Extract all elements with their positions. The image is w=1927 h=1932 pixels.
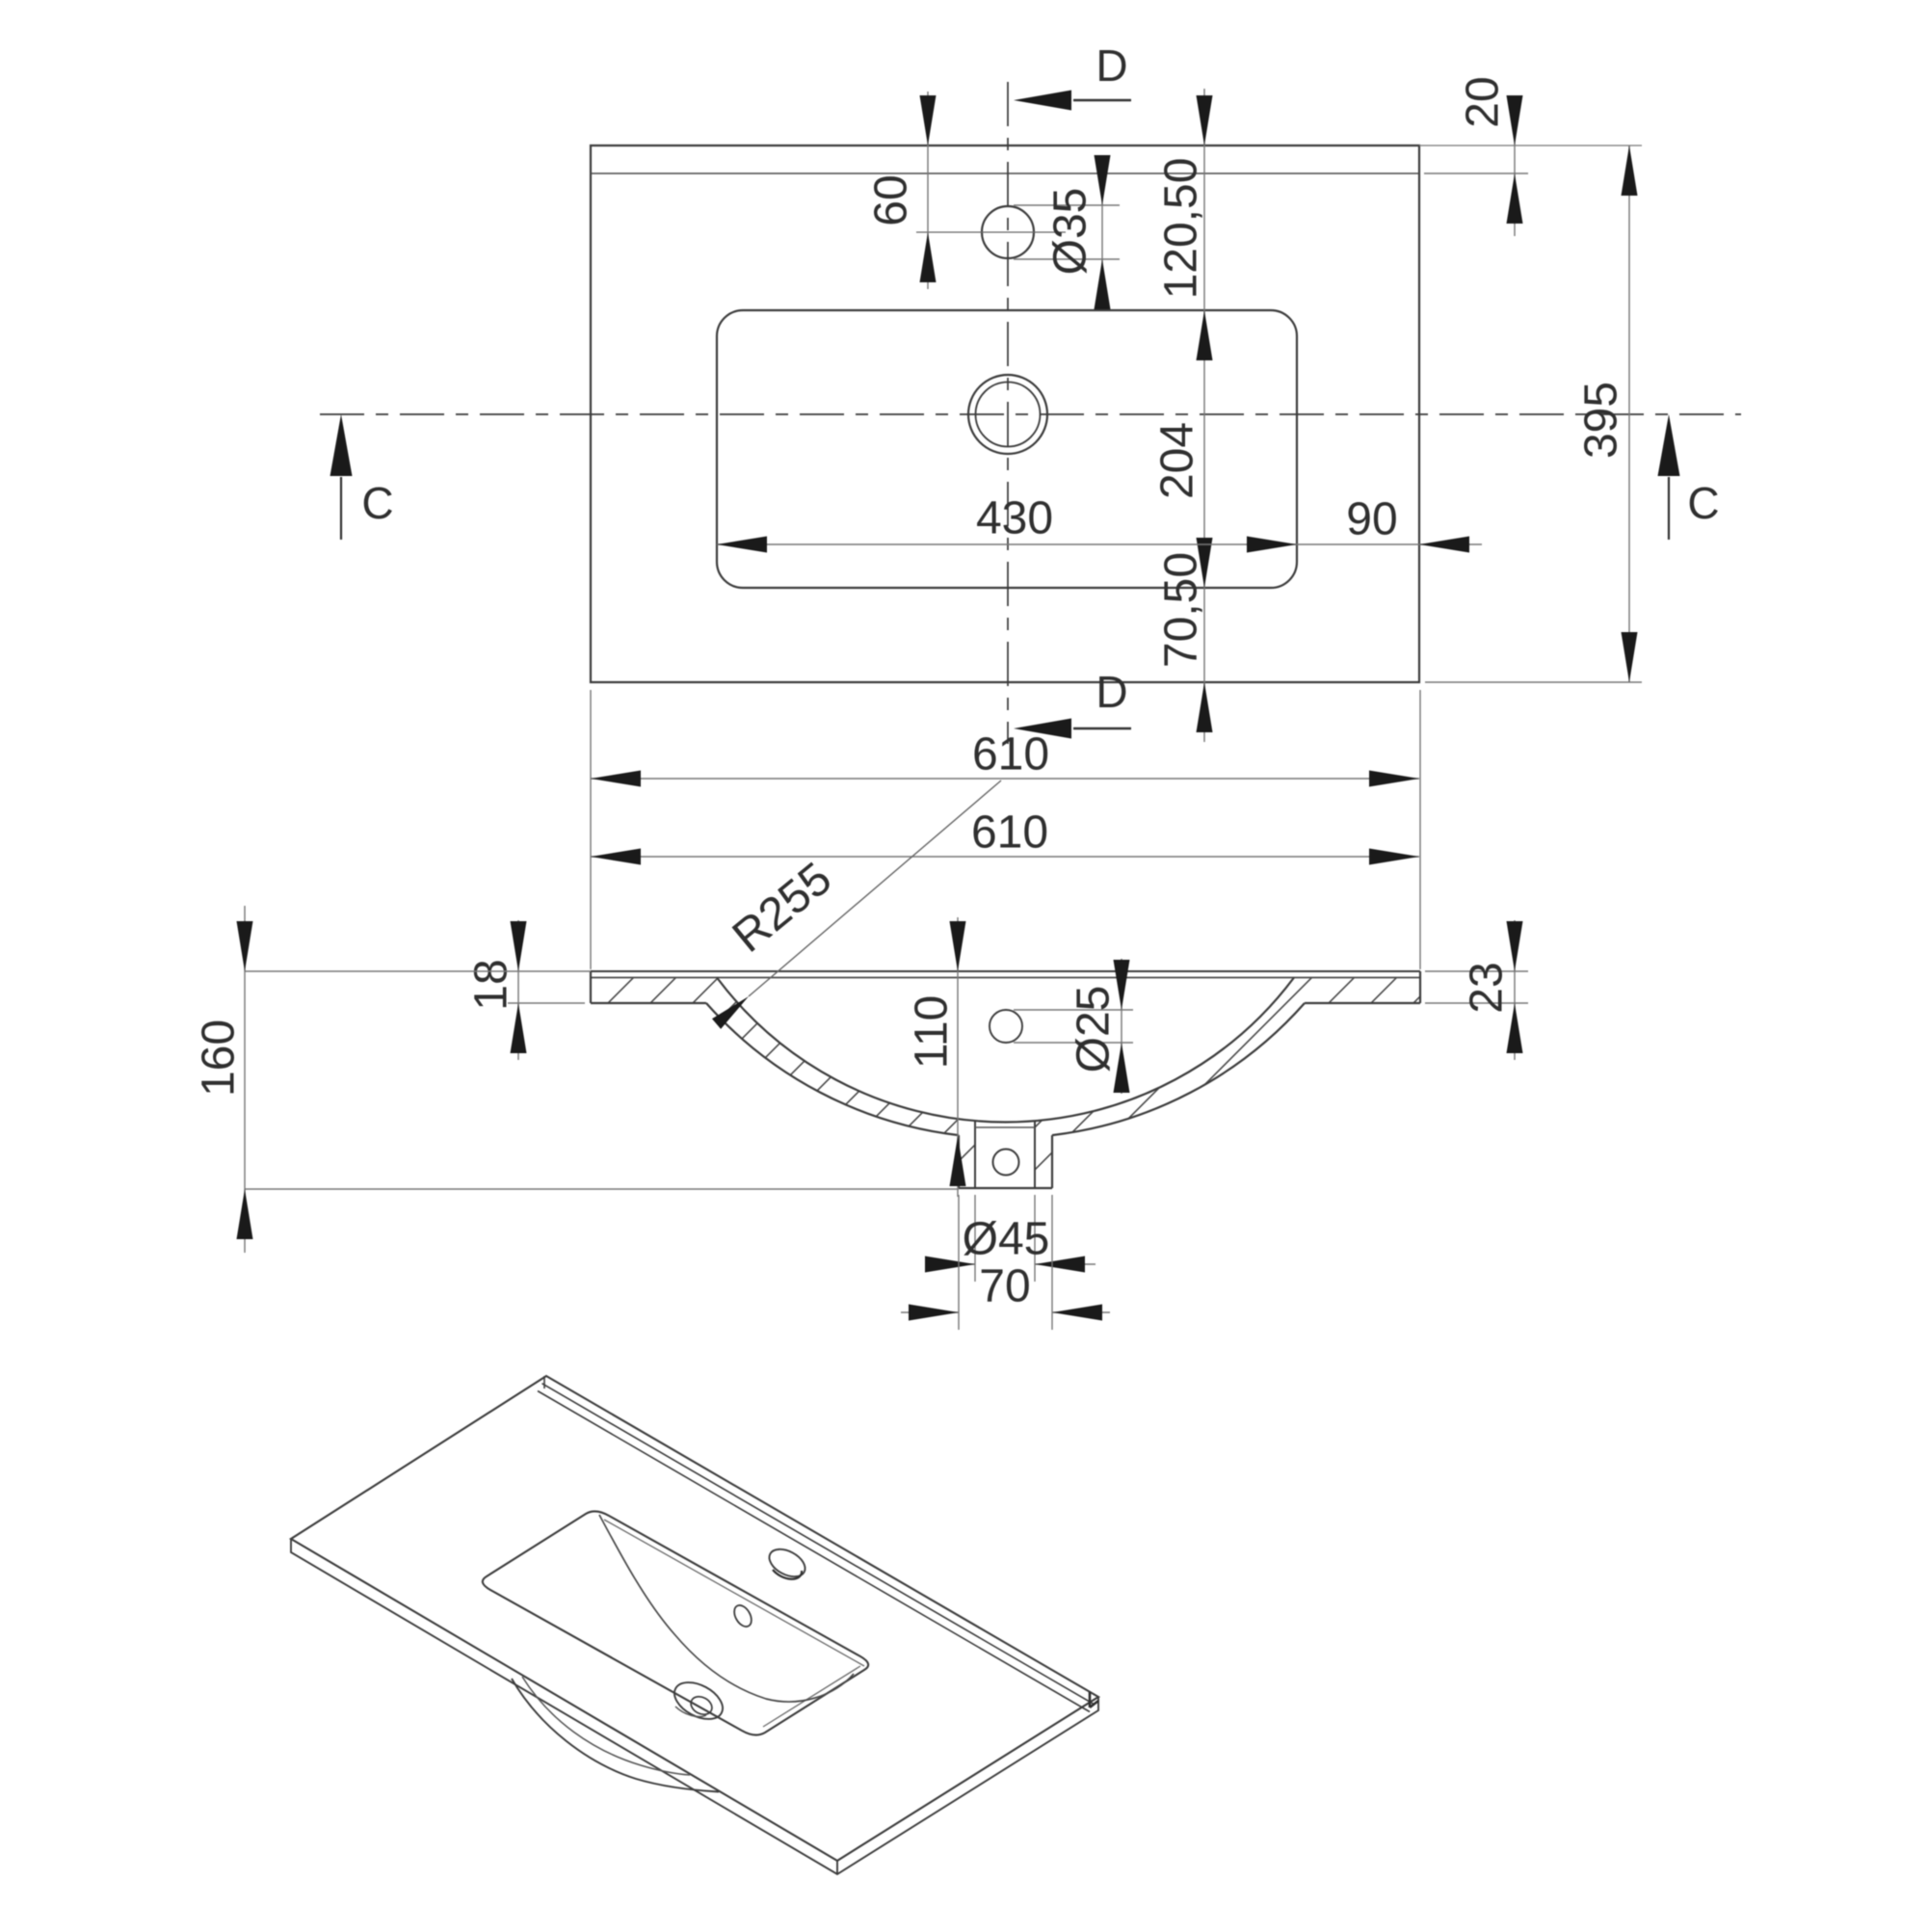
top view: faucet hole Ø35 <box>982 206 1034 258</box>
section basin outer curve left <box>706 1003 959 1135</box>
dim 610 line (plan) <box>591 778 1419 780</box>
610 arrow right <box>1369 771 1419 787</box>
395 arrow top <box>1622 146 1638 196</box>
iso: corner chamfer E <box>1090 1692 1098 1707</box>
dim 18 line <box>517 920 519 1060</box>
svg-text:110: 110 <box>907 995 958 1070</box>
160 arrow bottom <box>237 1189 253 1239</box>
610#2 arrow left <box>591 849 641 865</box>
svg-text:120,50: 120,50 <box>1156 158 1207 300</box>
23 arrow bottom <box>1507 1003 1523 1053</box>
drain box right <box>1051 1135 1053 1188</box>
section: hatched cut material left <box>591 978 975 1189</box>
Ø35 tangent bottom <box>1014 258 1120 260</box>
C arrow left <box>330 414 353 476</box>
dim 60 line <box>927 92 929 289</box>
top view: basin cutout <box>717 310 1297 588</box>
faucet hole horizontal crosshair <box>916 231 1066 233</box>
vertical centerline D-D <box>1007 82 1009 744</box>
C arrow right <box>1658 414 1680 476</box>
dim 110 line <box>957 917 959 1197</box>
610 arrow left <box>591 771 641 787</box>
svg-text:70,50: 70,50 <box>1156 552 1207 668</box>
section right edge <box>1419 971 1421 1003</box>
Ø45 arrow left <box>925 1257 975 1273</box>
iso: faucet hole oval <box>765 1544 810 1582</box>
430 arrow right <box>1247 537 1297 553</box>
svg-text:Ø35: Ø35 <box>1045 188 1096 276</box>
110 arrow top <box>950 921 966 971</box>
top view: drain outer circle <box>968 375 1047 454</box>
Ø25 tangent top <box>1014 1009 1133 1011</box>
D arrow tail bottom <box>1073 728 1131 729</box>
20 arrow bottom <box>1507 173 1523 224</box>
D arrow bottom <box>1014 719 1071 739</box>
svg-text:395: 395 <box>1576 382 1627 459</box>
Ø35 arrow top <box>1095 155 1111 205</box>
drain hole left wall <box>974 1121 976 1188</box>
section bottom left <box>591 1002 706 1004</box>
iso: back strip line 2 <box>538 1391 1090 1712</box>
svg-text:90: 90 <box>1346 494 1397 545</box>
iso: basin rim inner line SE <box>763 1666 860 1727</box>
dim 20 line <box>1514 99 1516 236</box>
Ø25 tangent bottom <box>1014 1042 1133 1044</box>
top view: back strip line (20mm) <box>591 172 1419 174</box>
chain dim line <box>1203 89 1205 742</box>
Ø45 tail left <box>938 1263 975 1265</box>
D arrow top <box>1014 91 1071 111</box>
section top second line <box>591 977 1420 979</box>
chain arrow at top edge <box>1197 95 1213 146</box>
ext 23 top <box>1425 970 1528 972</box>
Ø35 dim line <box>1101 159 1103 308</box>
70 tail left <box>901 1311 959 1313</box>
Ø45 tail right <box>1035 1263 1095 1265</box>
top view: washbasin plate outline <box>591 146 1419 682</box>
iso: back strip line 1 <box>542 1384 1095 1705</box>
70 ext left <box>958 1195 960 1330</box>
18 arrow bottom <box>511 1003 527 1053</box>
drain hole right wall <box>1034 1121 1036 1188</box>
ext surface left <box>245 970 591 972</box>
iso: underside bulge outer <box>512 1679 719 1792</box>
ext 18 bottom <box>508 1002 585 1004</box>
chain arrow at plate bottom <box>1197 682 1213 732</box>
svg-text:R255: R255 <box>724 853 841 963</box>
svg-text:18: 18 <box>466 959 517 1010</box>
dim 60 arrow top <box>920 95 937 146</box>
svg-text:610: 610 <box>972 729 1049 781</box>
Ø35 arrow bottom <box>1095 259 1111 309</box>
18 arrow top <box>511 921 527 971</box>
drain box circle <box>993 1150 1019 1176</box>
iso: overflow hole oval <box>731 1602 755 1629</box>
iso: basin rim inner line NE <box>604 1520 864 1666</box>
iso: faucet oval shade <box>773 1570 802 1579</box>
iso: drain outer oval <box>669 1675 729 1727</box>
Ø35 tangent top <box>1014 204 1120 206</box>
section basin inner curve <box>717 978 1294 1123</box>
610#2 arrow right <box>1369 849 1419 865</box>
iso: plate top face outline <box>291 1376 1098 1861</box>
iso: drain inner oval <box>688 1693 715 1718</box>
ext line for 20 <box>1424 172 1528 174</box>
section left edge <box>590 971 592 1003</box>
70 tail right <box>1052 1311 1110 1313</box>
svg-text:70: 70 <box>979 1261 1030 1312</box>
svg-text:60: 60 <box>866 174 917 225</box>
dim 23 line <box>1514 920 1516 1060</box>
top view: drain inner circle <box>976 383 1041 447</box>
Ø45 ext left <box>974 1195 976 1282</box>
430 arrow left <box>717 537 767 553</box>
dim 160 line <box>244 906 246 1253</box>
395 arrow bottom <box>1622 632 1638 682</box>
chain arrow at basin top <box>1197 310 1213 360</box>
Ø25 dim line <box>1121 959 1122 1094</box>
section basin outer curve right <box>1052 1003 1305 1135</box>
ext 23 bottom <box>1425 1002 1528 1004</box>
160 arrow top <box>237 921 253 971</box>
section faucet hole Ø25 <box>990 1010 1022 1043</box>
svg-text:20: 20 <box>1458 76 1509 127</box>
ext drain bottom <box>245 1188 959 1190</box>
dim 395 line <box>1628 146 1630 682</box>
R255 arrowhead <box>712 996 749 1029</box>
R255 leader line <box>749 781 1001 996</box>
dim 60 arrow bottom <box>920 232 937 282</box>
70 ext right <box>1051 1195 1053 1330</box>
iso: corner chamfer N <box>543 1376 545 1389</box>
svg-text:Ø25: Ø25 <box>1069 986 1120 1073</box>
drain box bottom <box>959 1187 1052 1189</box>
chain arrow at basin bottom <box>1197 538 1213 588</box>
dim 430/90 line <box>717 543 1482 545</box>
D arrow tail top <box>1073 99 1131 101</box>
iso: underside bulge inner <box>522 1677 690 1775</box>
svg-text:430: 430 <box>976 493 1053 544</box>
ext bottom edge right <box>1425 681 1642 683</box>
section: hatched cut material right <box>1035 978 1420 1189</box>
drain hole top line <box>975 1126 1035 1128</box>
svg-text:Ø45: Ø45 <box>963 1214 1050 1265</box>
C arrow tail left <box>340 477 342 540</box>
Ø25 arrow bottom <box>1114 1043 1130 1093</box>
svg-text:160: 160 <box>194 1019 245 1097</box>
svg-text:D: D <box>1095 40 1127 91</box>
dim 610 line (section) <box>591 856 1419 858</box>
90 arrow right-outside <box>1419 537 1469 553</box>
iso: plate thickness edges <box>291 1539 1098 1874</box>
drain box left <box>958 1135 960 1188</box>
iso: drain lower arc <box>675 1707 706 1716</box>
70 arrow right <box>1052 1305 1102 1321</box>
23 arrow top <box>1507 921 1523 971</box>
svg-text:C: C <box>1687 478 1719 528</box>
110 arrow bottom <box>950 1136 966 1186</box>
svg-text:C: C <box>361 478 393 528</box>
70 arrow left <box>909 1305 959 1321</box>
iso: basin inner curve <box>599 1515 854 1702</box>
Ø45 ext right <box>1034 1195 1036 1282</box>
Ø45 arrow right <box>1035 1257 1085 1273</box>
section bottom right <box>1305 1002 1420 1004</box>
ext left <box>590 690 592 969</box>
20 arrow top <box>1507 95 1523 146</box>
ext top edge right <box>1419 145 1642 146</box>
Ø25 arrow top <box>1114 960 1130 1010</box>
svg-text:D: D <box>1095 667 1127 717</box>
section top surface line <box>591 970 1420 972</box>
horizontal centerline C-C <box>320 413 1741 415</box>
ext right <box>1419 690 1421 969</box>
C arrow tail right <box>1668 477 1670 540</box>
svg-text:23: 23 <box>1462 962 1513 1013</box>
svg-text:204: 204 <box>1152 422 1203 499</box>
svg-text:610: 610 <box>971 807 1048 859</box>
iso: basin opening <box>483 1511 868 1734</box>
